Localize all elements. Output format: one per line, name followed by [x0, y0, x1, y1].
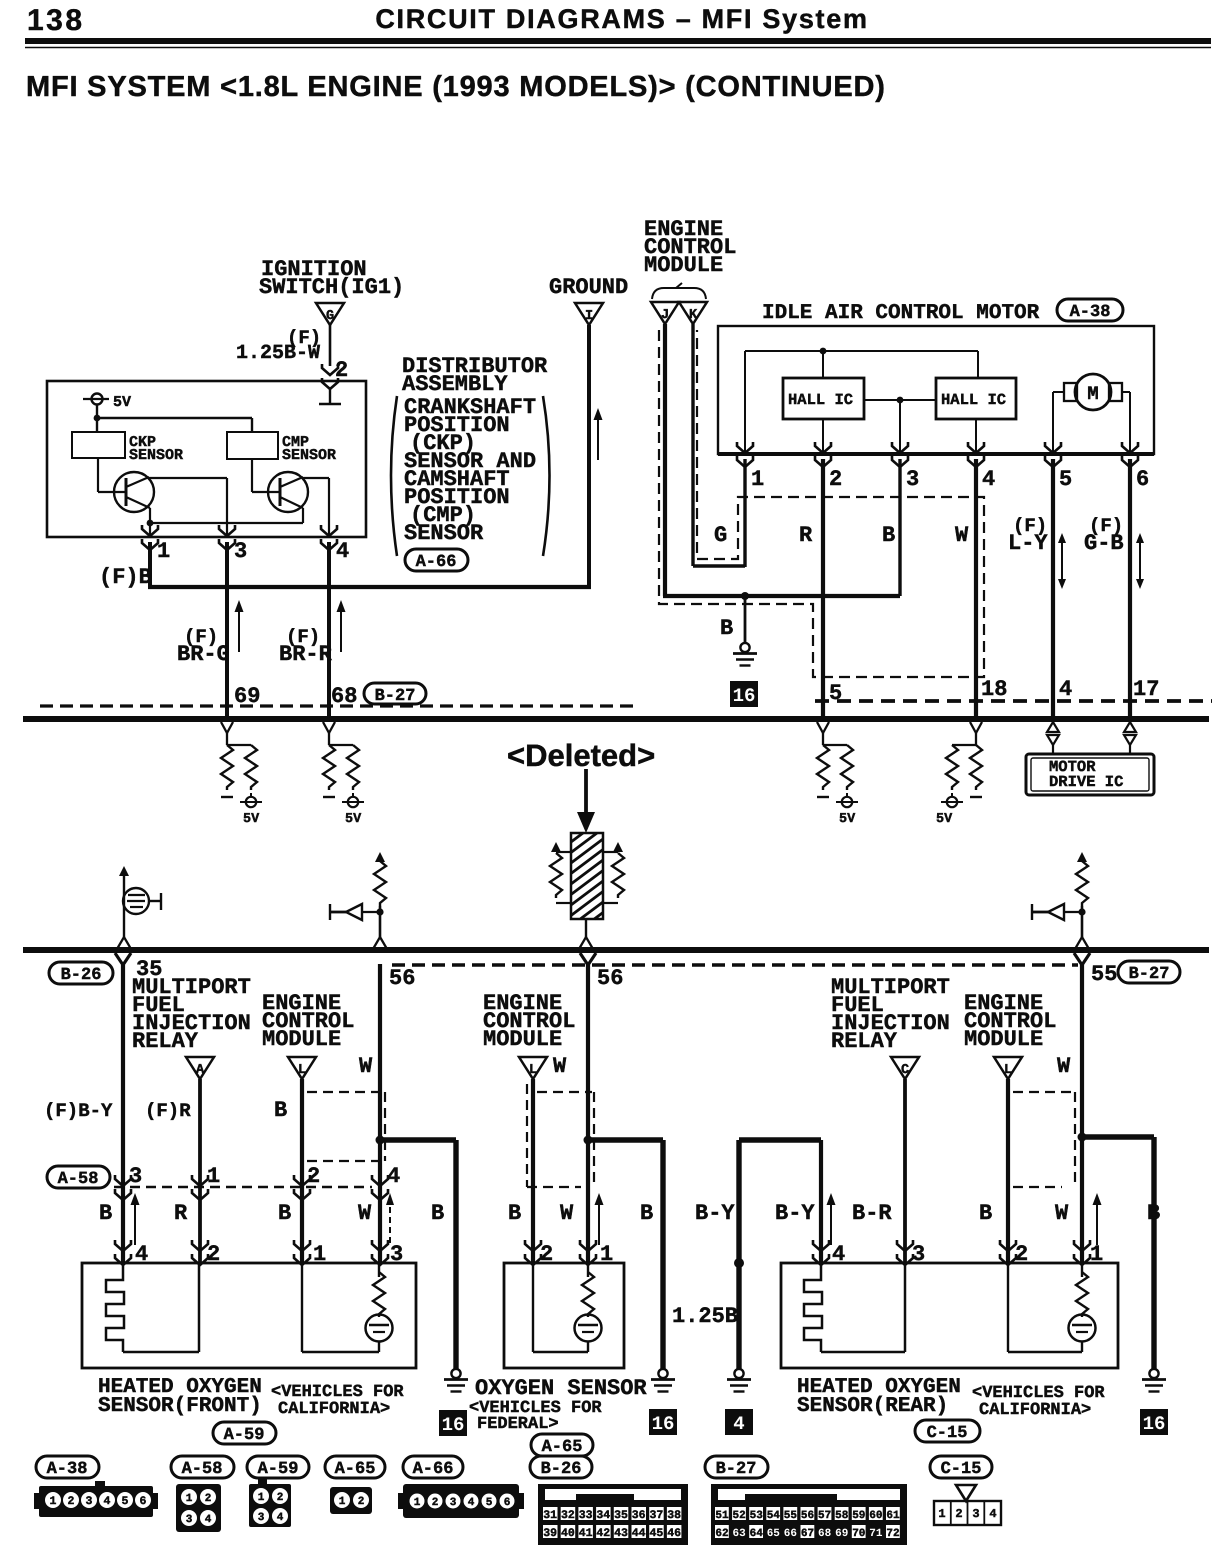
- wire B pin3 to J rail: [898, 459, 901, 596]
- svg-text:6: 6: [1136, 467, 1149, 492]
- connector oval C-15 (bottom): [930, 1456, 992, 1478]
- 5V supply symbol: [83, 398, 109, 400]
- svg-text:5V: 5V: [113, 394, 131, 411]
- heater element: [804, 1263, 822, 1352]
- svg-text:B: B: [720, 616, 733, 641]
- svg-text:1: 1: [938, 1507, 945, 1521]
- svg-text:C-15: C-15: [927, 1424, 968, 1443]
- connector oval A-58: [47, 1166, 110, 1188]
- svg-text:68: 68: [818, 1528, 832, 1540]
- svg-text:70: 70: [852, 1528, 865, 1540]
- svg-text:3: 3: [450, 1497, 457, 1509]
- svg-text:G-B: G-B: [1084, 531, 1124, 556]
- svg-text:60: 60: [869, 1510, 882, 1522]
- svg-text:L-Y: L-Y: [1008, 531, 1048, 556]
- connector A-66 pinout: [398, 1484, 524, 1518]
- connector A-59 pinout: [249, 1479, 291, 1527]
- svg-text:56: 56: [597, 966, 623, 991]
- svg-text:SENSOR: SENSOR: [404, 521, 484, 546]
- svg-text:W: W: [359, 1054, 373, 1079]
- svg-text:CIRCUIT DIAGRAMS – MFI System: CIRCUIT DIAGRAMS – MFI System: [375, 4, 868, 34]
- arrow beside B wire: [131, 1193, 140, 1245]
- svg-text:B: B: [278, 1201, 291, 1226]
- svg-text:65: 65: [767, 1528, 781, 1540]
- svg-text:L: L: [1004, 1063, 1012, 1078]
- connector B-27 pinout: [711, 1484, 907, 1545]
- oxygen sensor cell: [366, 1315, 393, 1342]
- svg-text:2: 2: [432, 1497, 439, 1509]
- pin marks row A-58: [115, 1175, 131, 1200]
- terminal 16 box: [730, 681, 758, 707]
- wire pin1 to ground bus: [148, 542, 152, 587]
- double diamond connector pin17 wire: [1124, 722, 1136, 745]
- svg-text:56: 56: [801, 1510, 814, 1522]
- connector oval A-38 (bottom): [36, 1456, 99, 1478]
- svg-text:W: W: [1055, 1201, 1069, 1226]
- svg-text:17: 17: [1133, 677, 1159, 702]
- connector A-58 pinout: [176, 1484, 221, 1532]
- wire deleted to bus2: [585, 919, 587, 937]
- distributor assembly box: [47, 381, 366, 537]
- pin marks distributor pins 1,3,4: [142, 525, 158, 550]
- branch tap 35: [115, 953, 131, 965]
- svg-text:B-27: B-27: [1129, 965, 1170, 984]
- dashed connector line A-58: [114, 1186, 372, 1188]
- svg-text:45: 45: [649, 1527, 663, 1540]
- svg-text:38: 38: [667, 1509, 681, 1522]
- svg-text:3: 3: [129, 1164, 142, 1189]
- svg-text:58: 58: [835, 1510, 849, 1522]
- svg-text:2: 2: [68, 1495, 75, 1508]
- svg-text:K: K: [689, 308, 698, 323]
- wire pin5 to bus: [1051, 459, 1055, 719]
- svg-text:W: W: [358, 1201, 372, 1226]
- svg-text:1: 1: [207, 1164, 220, 1189]
- connector triangle A (relay): [186, 1057, 214, 1079]
- wire pin4 to bus (BR-R): [327, 542, 331, 719]
- transistor Q1 (CKP output): [114, 472, 154, 512]
- dashed ECM internal (rear): [1013, 1092, 1075, 1187]
- connector triangle I (ground): [575, 303, 603, 325]
- connector oval A-59 (bottom): [247, 1456, 309, 1478]
- connector triangle K (ECM): [679, 302, 707, 324]
- svg-text:A-65: A-65: [542, 1438, 583, 1457]
- wire J down and right to pin3 B wire: [663, 324, 667, 596]
- svg-text:R: R: [799, 523, 813, 548]
- svg-text:63: 63: [732, 1528, 746, 1540]
- internal wire top rail: [745, 350, 978, 352]
- svg-text:G: G: [714, 523, 727, 548]
- svg-text:39: 39: [543, 1527, 557, 1540]
- svg-text:1: 1: [157, 539, 170, 564]
- junction and thick ground branch: [584, 1136, 593, 1145]
- svg-text:GROUND: GROUND: [549, 275, 628, 300]
- Q2 emitter wire: [302, 508, 304, 523]
- connector oval A-38 (title): [1057, 299, 1123, 321]
- dashed arrow beside W wire: [386, 1193, 394, 1205]
- pin marks at sensor: [525, 1240, 541, 1265]
- svg-text:4: 4: [336, 539, 349, 564]
- Q1 emitter wire / common to pin 1: [149, 508, 151, 537]
- thermistor symbol mid: [330, 852, 387, 949]
- wire between HALL ICs: [864, 399, 936, 401]
- svg-text:W: W: [955, 523, 969, 548]
- svg-text:53: 53: [750, 1510, 764, 1522]
- svg-text:2: 2: [307, 1164, 320, 1189]
- svg-text:A-66: A-66: [413, 1460, 454, 1479]
- terminal 16 box: [649, 1409, 677, 1435]
- svg-text:B-Y: B-Y: [775, 1201, 815, 1226]
- svg-text:SENSOR(REAR): SENSOR(REAR): [797, 1395, 948, 1418]
- deleted left resistor: [551, 842, 561, 852]
- svg-text:A: A: [196, 1063, 205, 1078]
- svg-text:J: J: [661, 308, 669, 323]
- svg-text:MODULE: MODULE: [262, 1027, 341, 1052]
- junction and thick ground branch: [1078, 1133, 1087, 1142]
- svg-text:54: 54: [767, 1510, 781, 1522]
- double arrow pin5 wire: [1061, 541, 1063, 581]
- terminal 16 box: [439, 1410, 467, 1436]
- svg-text:31: 31: [543, 1509, 557, 1522]
- idle air control motor box: [718, 326, 1154, 454]
- connector oval B-27: [1118, 961, 1180, 983]
- svg-text:3: 3: [234, 539, 247, 564]
- HALL IC 1 box: [783, 378, 864, 419]
- svg-text:16: 16: [652, 1413, 675, 1435]
- resistor network under pin 69: [221, 722, 251, 745]
- svg-text:64: 64: [750, 1528, 764, 1540]
- svg-text:A-38: A-38: [1070, 303, 1111, 322]
- svg-text:B: B: [882, 523, 895, 548]
- svg-text:3: 3: [258, 1512, 265, 1524]
- connector oval A-66 (bottom): [403, 1456, 463, 1478]
- connector oval A-66 (distributor): [405, 549, 468, 571]
- svg-text:IDLE AIR CONTROL MOTOR: IDLE AIR CONTROL MOTOR: [762, 302, 1040, 325]
- svg-text:1: 1: [186, 1493, 193, 1505]
- wire HALL2 bottom to pin4: [975, 419, 977, 454]
- svg-text:2: 2: [277, 1492, 284, 1504]
- svg-text:71: 71: [869, 1528, 883, 1540]
- connector triangle L (ECM): [288, 1057, 316, 1079]
- connector triangle L (ECM): [994, 1057, 1022, 1079]
- svg-text:FEDERAL>: FEDERAL>: [477, 1415, 559, 1434]
- svg-text:4: 4: [277, 1512, 284, 1524]
- svg-text:61: 61: [886, 1510, 900, 1522]
- svg-text:43: 43: [614, 1527, 628, 1540]
- svg-text:33: 33: [579, 1509, 593, 1522]
- svg-text:42: 42: [596, 1527, 610, 1540]
- svg-text:4: 4: [205, 1514, 212, 1526]
- dashed B-26/B-27 divider under bus2: [392, 963, 1078, 966]
- svg-text:46: 46: [667, 1527, 681, 1540]
- Q1 collector wire to pin 3: [149, 477, 227, 479]
- svg-text:G: G: [326, 309, 334, 324]
- svg-text:32: 32: [561, 1509, 575, 1522]
- connector oval B-26 (bottom): [530, 1456, 592, 1478]
- wire W (56) down: [580, 953, 596, 965]
- wire W (55) down: [1074, 953, 1090, 965]
- wire to pin3: [899, 400, 901, 454]
- svg-text:5V: 5V: [345, 812, 362, 827]
- deleted component hatched box: [571, 833, 603, 919]
- svg-text:I: I: [585, 309, 593, 324]
- ground 4: [727, 1369, 751, 1392]
- svg-text:C: C: [901, 1063, 909, 1078]
- arrow to deleted component: [584, 769, 588, 815]
- svg-text:57: 57: [818, 1510, 831, 1522]
- transistor Q2 (CMP output): [268, 472, 308, 512]
- svg-text:A-58: A-58: [58, 1170, 99, 1189]
- svg-text:B: B: [979, 1201, 992, 1226]
- svg-text:4: 4: [468, 1497, 475, 1509]
- solid bus 1: [23, 716, 1209, 722]
- svg-text:MODULE: MODULE: [644, 253, 723, 278]
- dashed bus right: [815, 699, 1212, 703]
- svg-text:3: 3: [906, 467, 919, 492]
- connector triangle L (ECM): [519, 1057, 547, 1079]
- connector oval A-59: [213, 1422, 276, 1444]
- svg-text:35: 35: [614, 1509, 628, 1522]
- connector C-15 pinout: [934, 1485, 1001, 1525]
- wire 5V to CKP/CMP sensors: [96, 404, 98, 432]
- arrow on ground wire: [594, 408, 603, 460]
- svg-text:56: 56: [389, 966, 415, 991]
- svg-text:(F)B: (F)B: [99, 565, 152, 590]
- svg-text:SWITCH(IG1): SWITCH(IG1): [259, 275, 404, 300]
- wire L down: [300, 1079, 304, 1263]
- svg-text:44: 44: [632, 1527, 646, 1540]
- connector oval C-15: [915, 1420, 980, 1442]
- svg-text:MODULE: MODULE: [483, 1027, 562, 1052]
- svg-text:5: 5: [486, 1497, 493, 1509]
- svg-text:B: B: [1147, 1201, 1160, 1226]
- svg-text:MFI SYSTEM <1.8L ENGINE (1993: MFI SYSTEM <1.8L ENGINE (1993 MODELS)> (…: [26, 71, 886, 103]
- svg-text:A-59: A-59: [258, 1460, 299, 1479]
- wire stub inside distributor to terminal bar: [329, 387, 331, 404]
- junction and thick ground branch: [376, 1136, 385, 1145]
- svg-text:3: 3: [86, 1495, 93, 1508]
- svg-text:52: 52: [732, 1510, 745, 1522]
- wire G pin1 down: [743, 459, 746, 567]
- wire HALL1 bottom to pin2: [822, 419, 824, 454]
- connector oval A-65: [531, 1434, 593, 1456]
- svg-text:3: 3: [972, 1507, 979, 1521]
- deleted right resistor: [613, 842, 623, 852]
- svg-text:16: 16: [442, 1414, 465, 1436]
- svg-text:5: 5: [122, 1495, 129, 1508]
- svg-text:B: B: [508, 1201, 521, 1226]
- sensor symbol (circle gauge) left: [117, 866, 161, 949]
- header rule: [25, 38, 1211, 44]
- svg-text:CALIFORNIA>: CALIFORNIA>: [979, 1401, 1091, 1420]
- connector B-26 pinout: [538, 1484, 688, 1545]
- svg-text:HALL IC: HALL IC: [941, 391, 1006, 409]
- svg-text:B-26: B-26: [541, 1460, 582, 1479]
- svg-text:B-R: B-R: [852, 1201, 892, 1226]
- double diamond connector pin4 wire: [1047, 722, 1059, 745]
- svg-text:59: 59: [852, 1510, 865, 1522]
- pin marks at sensor: [813, 1240, 829, 1265]
- svg-text:BR-R: BR-R: [279, 642, 333, 667]
- svg-text:<Deleted>: <Deleted>: [507, 738, 655, 773]
- connector oval A-58 (bottom): [171, 1456, 234, 1478]
- svg-text:A-65: A-65: [335, 1460, 376, 1479]
- ECM boundary dashed: [659, 330, 984, 677]
- svg-text:A-58: A-58: [182, 1460, 223, 1479]
- heated oxygen sensor (front) box: [82, 1263, 416, 1368]
- svg-text:B: B: [274, 1098, 287, 1123]
- wire 35 (relay feed): [121, 965, 125, 1263]
- svg-text:69: 69: [835, 1528, 848, 1540]
- svg-text:SENSOR: SENSOR: [282, 447, 336, 464]
- svg-text:L: L: [529, 1063, 537, 1078]
- svg-text:72: 72: [886, 1528, 899, 1540]
- svg-text:C-15: C-15: [941, 1460, 982, 1479]
- svg-text:18: 18: [981, 677, 1007, 702]
- connector A-38 pinout: [34, 1481, 158, 1517]
- thermistor symbol right: [1032, 852, 1089, 949]
- svg-text:5V: 5V: [243, 812, 260, 827]
- junction B tap on J rail: [741, 592, 749, 600]
- wire pin3 to bus (BR-G): [225, 542, 229, 719]
- svg-text:4: 4: [982, 467, 995, 492]
- wire W pin4 to bus: [974, 459, 978, 719]
- svg-text:ASSEMBLY: ASSEMBLY: [402, 372, 508, 397]
- svg-text:RELAY: RELAY: [831, 1029, 898, 1054]
- svg-text:138: 138: [27, 4, 85, 37]
- svg-text:4: 4: [387, 1164, 400, 1189]
- ground (IAC B wire): [733, 643, 757, 666]
- svg-text:B: B: [99, 1201, 112, 1226]
- resistor network under pin 5: [817, 722, 847, 745]
- svg-text:2: 2: [358, 1496, 365, 1508]
- connector triangle G (ignition switch): [316, 303, 344, 325]
- svg-text:B-27: B-27: [716, 1460, 757, 1479]
- svg-text:A-38: A-38: [47, 1460, 88, 1479]
- connector oval B-27 (bottom): [705, 1456, 768, 1478]
- connector oval B-27: [364, 683, 426, 704]
- svg-text:1: 1: [258, 1492, 265, 1504]
- svg-text:16: 16: [1143, 1413, 1166, 1435]
- svg-text:B: B: [431, 1201, 444, 1226]
- CMP sensor box: [227, 432, 278, 459]
- svg-text:(F)B-Y: (F)B-Y: [44, 1100, 113, 1122]
- svg-text:51: 51: [715, 1510, 729, 1522]
- svg-text:2: 2: [829, 467, 842, 492]
- svg-text:2: 2: [955, 1507, 962, 1521]
- solid bus 2: [23, 947, 1209, 953]
- wire K down joining G wire of pin1: [691, 324, 694, 566]
- resistor network under pin 68: [323, 722, 353, 745]
- ground front B: [444, 1369, 468, 1392]
- connector triangle C (relay): [891, 1057, 919, 1079]
- svg-text:1: 1: [414, 1497, 421, 1509]
- svg-text:RELAY: RELAY: [132, 1029, 199, 1054]
- svg-text:SENSOR(FRONT): SENSOR(FRONT): [98, 1395, 262, 1418]
- svg-text:SENSOR: SENSOR: [129, 447, 183, 464]
- wire L down: [531, 1079, 535, 1263]
- svg-text:62: 62: [715, 1528, 728, 1540]
- sensor resistor: [378, 1263, 380, 1277]
- dashed bus left: [40, 704, 637, 707]
- svg-text:34: 34: [596, 1509, 610, 1522]
- svg-text:W: W: [553, 1054, 567, 1079]
- svg-text:R: R: [174, 1201, 188, 1226]
- heated oxygen sensor (rear) box: [781, 1263, 1118, 1368]
- svg-text:36: 36: [632, 1509, 646, 1522]
- wire A down: [198, 1079, 202, 1263]
- motor M: [1075, 374, 1111, 410]
- svg-text:1: 1: [339, 1496, 346, 1508]
- HALL IC 2 box: [936, 378, 1016, 419]
- svg-text:B-27: B-27: [375, 687, 416, 706]
- svg-text:5: 5: [1059, 467, 1072, 492]
- sensor cell wiring: [1007, 1263, 1009, 1352]
- svg-text:MODULE: MODULE: [964, 1027, 1043, 1052]
- svg-text:A-59: A-59: [224, 1426, 265, 1445]
- oxygen sensor (federal) box: [504, 1263, 624, 1368]
- svg-text:B: B: [640, 1201, 653, 1226]
- svg-text:41: 41: [579, 1527, 593, 1540]
- svg-text:B-26: B-26: [61, 966, 102, 985]
- dashed ECM internal (front): [307, 1092, 385, 1161]
- ECM bracket: [652, 288, 706, 299]
- svg-text:16: 16: [733, 685, 756, 707]
- motor drive IC box: [1026, 754, 1154, 795]
- heater element: [106, 1263, 124, 1352]
- big parentheses around sensor description: [391, 396, 397, 556]
- connector triangle J (ECM): [651, 302, 679, 324]
- svg-text:6: 6: [140, 1495, 147, 1508]
- wire R pin2 to bus: [821, 459, 825, 719]
- svg-text:DRIVE IC: DRIVE IC: [1049, 773, 1123, 791]
- svg-text:4: 4: [1059, 677, 1072, 702]
- svg-text:L: L: [298, 1063, 306, 1078]
- ground rear B: [1142, 1369, 1166, 1392]
- svg-text:BR-G: BR-G: [177, 642, 230, 667]
- svg-text:W: W: [560, 1201, 574, 1226]
- B-Y bridge wire to ground 4: [739, 1137, 821, 1142]
- sensor cell wiring: [301, 1263, 303, 1352]
- svg-text:1: 1: [50, 1495, 57, 1508]
- svg-text:4: 4: [104, 1495, 111, 1508]
- svg-text:4: 4: [733, 1413, 744, 1435]
- svg-text:66: 66: [784, 1528, 797, 1540]
- motor wires to pins 5,6: [1053, 391, 1064, 393]
- svg-text:6: 6: [504, 1497, 511, 1509]
- svg-text:M: M: [1087, 383, 1098, 405]
- svg-text:OXYGEN SENSOR: OXYGEN SENSOR: [475, 1376, 647, 1401]
- connector oval B-26: [49, 962, 113, 984]
- svg-text:(F)R: (F)R: [145, 1100, 191, 1122]
- CKP sensor box: [72, 432, 125, 458]
- svg-text:5V: 5V: [936, 812, 953, 827]
- svg-text:1.25B-W: 1.25B-W: [236, 342, 320, 365]
- svg-text:HALL IC: HALL IC: [788, 391, 853, 409]
- svg-text:55: 55: [1091, 962, 1117, 987]
- svg-text:67: 67: [801, 1528, 814, 1540]
- wire ignition to distributor pin 2: [329, 325, 332, 366]
- ground federal B: [651, 1369, 675, 1392]
- Q2 collector wire to pin 4: [303, 477, 329, 479]
- dashed ECM internal (federal): [527, 1084, 594, 1187]
- svg-text:5V: 5V: [839, 812, 856, 827]
- pin marks at sensor: [115, 1240, 131, 1265]
- svg-text:55: 55: [784, 1510, 798, 1522]
- pin mark distributor pin2: [322, 364, 338, 389]
- svg-text:B-Y: B-Y: [695, 1201, 735, 1226]
- connector oval A-65 (bottom): [325, 1456, 385, 1478]
